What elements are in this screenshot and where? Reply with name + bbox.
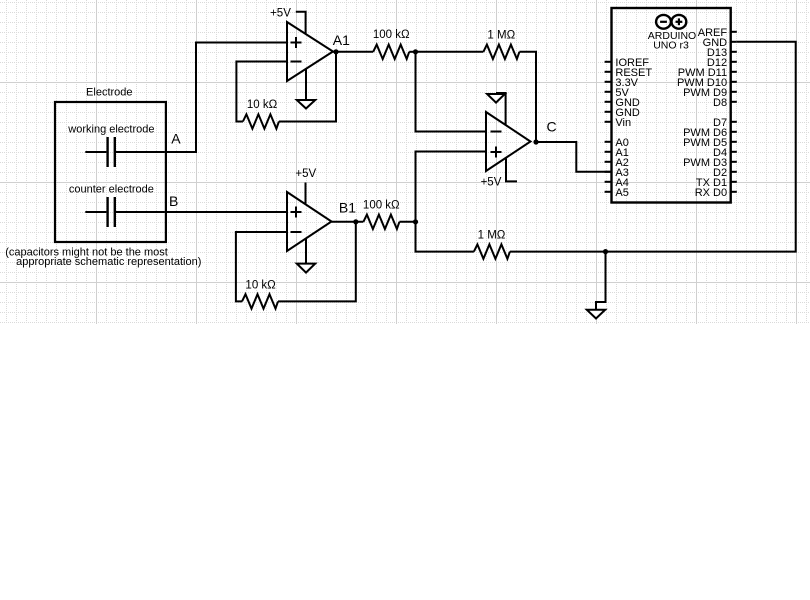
- wire R3 to B junction: [399, 221, 415, 223]
- capacitor counter electrode: [85, 197, 165, 227]
- wire node A to A1 non-inverting input: [165, 43, 287, 153]
- svg-text:1 MΩ: 1 MΩ: [487, 29, 515, 41]
- resistor R2 10 kOhm (A1 feedback): [243, 114, 279, 128]
- pin A1: [605, 147, 629, 159]
- wire B1 feedback to inverting input: [236, 232, 287, 301]
- wire node B to B1 non-inverting input: [165, 211, 287, 213]
- svg-text:working electrode: working electrode: [67, 123, 154, 135]
- junction C output: [533, 139, 538, 144]
- wire +5V to A1 supply: [296, 12, 306, 34]
- svg-text:appropriate schematic represen: appropriate schematic representation): [16, 256, 201, 268]
- junction A1 output: [333, 49, 338, 54]
- svg-text:100 kΩ: 100 kΩ: [363, 199, 400, 211]
- pin A4: [605, 177, 629, 189]
- svg-text:+5V: +5V: [481, 177, 502, 189]
- resistor R4 10 kOhm (B1 feedback): [242, 294, 278, 308]
- ground (bottom): [587, 252, 606, 319]
- wire ground net to Arduino GND: [606, 42, 796, 252]
- pin D7: [713, 117, 737, 129]
- pin IOREF: [605, 57, 650, 69]
- wire R6 to ground junction: [510, 251, 606, 253]
- wire +5V to C supply: [506, 159, 517, 182]
- pin 5V: [605, 87, 630, 99]
- wire A1 feedback down from output junction: [279, 52, 336, 122]
- pin D13: [707, 47, 737, 59]
- pin D2: [713, 167, 737, 179]
- svg-text:A1: A1: [333, 32, 350, 48]
- Arduino UNO r3 body: [612, 8, 731, 203]
- svg-text:+5V: +5V: [270, 8, 291, 20]
- pin A0: [605, 137, 629, 149]
- pin RESET: [605, 67, 653, 79]
- pin PWM D5: [683, 137, 737, 149]
- resistor R1 100 kOhm (A branch): [373, 45, 409, 59]
- pin TX D1: [696, 177, 737, 189]
- wire R5 to C output: [519, 52, 536, 142]
- pin AREF: [698, 27, 737, 39]
- op-amp A1: [287, 22, 333, 81]
- pin 3.3V: [605, 77, 639, 89]
- pin RX D0: [695, 187, 737, 199]
- pin A2: [605, 157, 629, 169]
- pin D12: [707, 57, 737, 69]
- pin A5: [605, 187, 629, 199]
- svg-text:A5: A5: [615, 187, 628, 199]
- pin A3: [605, 167, 629, 179]
- junction B1 output: [353, 219, 358, 224]
- resistor R3 100 kOhm (B branch): [363, 215, 399, 229]
- op-amp B1: [287, 192, 332, 251]
- pin Vin: [605, 117, 632, 129]
- pin GND right: [703, 37, 737, 49]
- pin PWM D9: [683, 87, 737, 99]
- ground flag (above C): [487, 93, 506, 125]
- svg-text:Vin: Vin: [615, 117, 631, 129]
- junction A branch node: [413, 49, 418, 54]
- Arduino logo: [656, 15, 686, 29]
- pin D8: [713, 97, 737, 109]
- svg-text:10 kΩ: 10 kΩ: [247, 99, 278, 111]
- junction ground net: [603, 249, 608, 254]
- wire A junction to C inverting input: [416, 52, 487, 132]
- svg-text:+5V: +5V: [295, 168, 316, 180]
- wire A1 output: [333, 51, 373, 53]
- electrode assembly box: [55, 102, 166, 242]
- svg-text:B: B: [169, 193, 178, 209]
- pin PWM D6: [683, 127, 737, 139]
- svg-text:UNO r3: UNO r3: [653, 39, 689, 51]
- op-amp C: [486, 112, 531, 171]
- svg-text:D8: D8: [713, 97, 727, 109]
- svg-text:A: A: [171, 131, 181, 147]
- svg-text:C: C: [547, 118, 557, 134]
- junction B branch node: [413, 219, 418, 224]
- wire A1 feedback to inverting input: [236, 62, 287, 122]
- wire C output to Arduino A3: [536, 142, 612, 172]
- capacitor working electrode: [85, 137, 165, 167]
- wire R1 to summing junction: [409, 51, 415, 53]
- svg-text:Electrode: Electrode: [86, 87, 132, 99]
- pin GND left 2: [605, 107, 640, 119]
- pin PWM D11: [678, 67, 737, 79]
- resistor R5 1 MOhm (top feedback): [483, 45, 519, 59]
- pin PWM D3: [683, 157, 737, 169]
- wire +5V to B1 supply: [305, 183, 307, 204]
- wire B1 feedback down from output junction: [278, 222, 356, 302]
- svg-text:B1: B1: [339, 200, 356, 216]
- svg-text:1 MΩ: 1 MΩ: [478, 229, 506, 241]
- pin GND left 1: [605, 97, 640, 109]
- wire B junction to C non-inverting input: [416, 152, 487, 222]
- wire B junction down to ground net: [416, 222, 474, 252]
- ground (below A1): [297, 69, 315, 108]
- pin PWM D10: [677, 77, 737, 89]
- wire B1 output: [332, 221, 364, 223]
- svg-text:RX D0: RX D0: [695, 187, 727, 199]
- resistor R6 1 MOhm (bottom): [474, 244, 510, 258]
- ground (below B1): [297, 239, 315, 273]
- wire A junction to 1M feedback resistor: [416, 51, 484, 53]
- svg-text:counter electrode: counter electrode: [69, 184, 154, 196]
- svg-text:10 kΩ: 10 kΩ: [245, 279, 276, 291]
- pin D4: [713, 147, 737, 159]
- svg-text:100 kΩ: 100 kΩ: [373, 29, 410, 41]
